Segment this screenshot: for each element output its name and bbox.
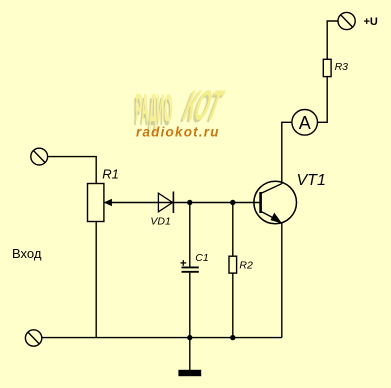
node R2 bottom [230,335,235,340]
svg-text:VT1: VT1 [297,172,326,189]
svg-text:Вход: Вход [12,246,42,261]
wire terminal +U to R3 [327,21,338,59]
R1 wiper arrow [104,199,261,207]
node ground [187,335,192,340]
svg-text:radiokot.ru: radiokot.ru [136,124,220,139]
watermark КОТ [179,83,228,130]
svg-text:R1: R1 [102,167,119,182]
node C1 top [187,200,192,205]
svg-text:C1: C1 [195,252,208,264]
ground [178,338,201,377]
wire R3 to ammeter [317,77,327,123]
node R2 top [230,200,235,205]
ammeter A [292,110,318,136]
terminal +U [338,12,355,29]
wire terminal to R1 top [48,157,96,184]
terminal input bottom [25,330,41,346]
potentiometer R1 [88,184,104,222]
svg-text:A: A [299,113,311,133]
bottom wire [42,337,282,339]
terminal input top [31,148,48,165]
diode VD1 [158,192,173,214]
transistor VT1 [254,181,297,224]
watermark radiokot.ru [136,124,220,139]
resistor R3 [323,59,331,76]
svg-text:R2: R2 [239,259,253,271]
watermark Радио [136,87,173,131]
C1 plus sign [181,260,187,266]
capacitor C1 [182,203,199,338]
svg-text:R3: R3 [335,61,349,73]
wire ammeter to collector [282,122,292,184]
wire R1 bottom [95,222,97,338]
svg-text:VD1: VD1 [150,216,170,228]
svg-text:+U: +U [364,16,378,28]
wire emitter to bottom [281,223,283,338]
resistor R2 [229,203,237,338]
